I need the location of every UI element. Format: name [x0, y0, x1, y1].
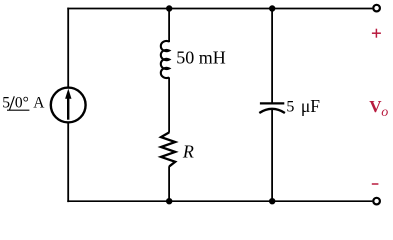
capacitor curved bottom plate	[259, 109, 285, 113]
junction dot bottom of capacitor branch	[269, 198, 275, 204]
terminal top right (open circle)	[373, 5, 380, 12]
svg-text:R: R	[182, 142, 194, 162]
wire capacitor branch bottom lead	[271, 109, 273, 202]
svg-text:o: o	[381, 105, 388, 120]
inductor 50 mH (coil)	[161, 41, 169, 78]
wire top rail	[67, 8, 372, 10]
current source 5&#8736;0&#176; A (circle)	[51, 88, 86, 123]
capacitor 5 &#181;F straight top plate	[260, 102, 284, 104]
label - polarity	[372, 183, 379, 185]
junction dot top of inductor branch	[166, 5, 172, 11]
current source arrow head	[65, 89, 71, 99]
label + polarity horizontal stroke	[372, 32, 381, 34]
wire bottom rail	[67, 200, 372, 202]
wire middle branch mid lead	[168, 77, 170, 132]
wire left branch upper segment	[67, 8, 69, 88]
svg-text:5: 5	[286, 99, 294, 116]
svg-text:A: A	[33, 95, 45, 112]
svg-text:0°: 0°	[15, 95, 29, 112]
wire left branch lower segment	[67, 122, 69, 202]
label angle slash	[9, 96, 14, 110]
svg-text:5: 5	[2, 95, 10, 112]
label + polarity vertical stroke	[375, 29, 377, 38]
junction dot top of capacitor branch	[269, 5, 275, 11]
resistor R (zigzag)	[161, 132, 175, 166]
terminal bottom right (open circle)	[373, 198, 380, 205]
wire middle branch top lead	[168, 8, 170, 43]
svg-text:μF: μF	[301, 96, 320, 116]
label angle underline	[7, 109, 29, 111]
current source arrow shaft	[67, 98, 69, 120]
svg-text:50 mH: 50 mH	[176, 48, 226, 68]
wire capacitor branch top lead	[271, 8, 273, 104]
junction dot bottom of inductor branch	[166, 198, 172, 204]
wire middle branch bottom lead	[168, 166, 170, 202]
